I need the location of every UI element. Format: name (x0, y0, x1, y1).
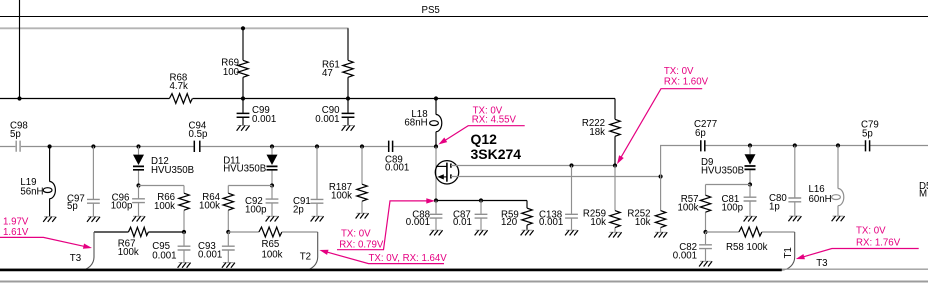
svg-text:3SK274: 3SK274 (471, 146, 522, 162)
ground below C81 (744, 216, 757, 221)
wire R65 to T2 tap (282, 231, 318, 233)
ground below C138 (565, 230, 578, 235)
svg-text:100: 100 (223, 67, 240, 78)
capacitor C88 (435, 201, 437, 230)
capacitor C93 (227, 232, 229, 262)
ground below R252 (654, 232, 667, 237)
capacitor C96 (gray) (138, 186, 140, 217)
svg-text:T3: T3 (816, 258, 827, 269)
capacitor C89 (series) (389, 141, 393, 152)
capacitor C81 (749, 185, 751, 217)
node supply drop / bias wire junction (17, 96, 21, 100)
callout TX: 0V / RX: 1.76V at T1 (795, 225, 919, 261)
svg-text:TX: 0V: TX: 0V (856, 225, 886, 236)
wire gate bias drop (435, 147, 437, 201)
ground below C82 (699, 261, 712, 266)
svg-text:0.001: 0.001 (673, 251, 697, 262)
svg-text:HVU350B: HVU350B (701, 166, 744, 177)
ground below C90 (342, 126, 355, 131)
svg-text:Q12: Q12 (471, 131, 498, 147)
wire RF signal rail (gray) (0, 146, 436, 148)
ground below C88 (430, 230, 443, 235)
wire T3 tap to R67 (94, 231, 128, 233)
svg-text:HVU350B: HVU350B (223, 164, 266, 175)
svg-text:5p: 5p (67, 201, 78, 212)
svg-text:60nH: 60nH (809, 194, 832, 205)
capacitor C97 (gray) (92, 147, 94, 217)
resistor R59 (526, 201, 528, 230)
wire gate bias network (436, 200, 527, 202)
svg-text:0.001: 0.001 (198, 250, 222, 261)
svg-text:10k: 10k (635, 217, 651, 228)
transformer tap T3 (left) (81, 232, 94, 270)
capacitor C87 (480, 201, 482, 230)
wire source node to output coupling (661, 146, 928, 177)
wire bias feed line (0, 98, 615, 100)
ground below C87 (475, 230, 488, 235)
wire supply drop from top edge (19, 0, 21, 99)
node R66 / R67 / C95 (182, 230, 186, 234)
svg-text:100k: 100k (154, 201, 175, 212)
wire R57 to D9 (706, 184, 751, 186)
ground below R59 (521, 230, 534, 235)
svg-text:R65: R65 (262, 239, 280, 250)
node R61 bottom / C90 (346, 96, 350, 100)
svg-text:PS5: PS5 (422, 5, 440, 16)
resistor R58 (739, 227, 762, 237)
ground below C93 (222, 263, 235, 268)
capacitor C79 (series) (866, 140, 870, 151)
wire C82 node to R58 (706, 231, 739, 233)
node D12 cathode junction (136, 183, 140, 187)
capacitor C95 (183, 232, 185, 262)
svg-text:RX: 0.79V: RX: 0.79V (339, 239, 384, 250)
resistor R68 (169, 94, 192, 104)
ground below L19 (43, 217, 56, 222)
transformer tap T1 (782, 232, 795, 270)
node R69 bottom / C99 (241, 96, 245, 100)
svg-text:68nH: 68nH (404, 118, 427, 129)
capacitor C92 (gray) (271, 186, 273, 217)
resistor R65 (259, 227, 282, 237)
capacitor C91 (gray) (316, 147, 318, 217)
svg-text:18k: 18k (589, 127, 605, 138)
node L18 top on bias wire (434, 96, 438, 100)
node C138 on drain lead (569, 163, 573, 167)
node R64 / R65 / C93 (226, 230, 230, 234)
svg-text:T3: T3 (70, 253, 81, 264)
shield ground bar (thick black) (0, 269, 782, 272)
wire R58 to T1 tap (762, 231, 795, 233)
transformer tap T2 (305, 232, 318, 270)
varactor diode D11 (271, 147, 273, 186)
svg-text:120: 120 (501, 217, 518, 228)
node D9 cathode / C81 (748, 182, 752, 186)
svg-text:RX: 1.60V: RX: 1.60V (664, 76, 709, 87)
node C97 tap (91, 144, 95, 148)
svg-text:6p: 6p (695, 128, 706, 139)
node L19 tap (48, 144, 52, 148)
svg-text:0.001: 0.001 (406, 217, 430, 228)
svg-text:56nH: 56nH (20, 187, 43, 198)
callout TX: 0V / RX: 0.79V at gate bias node (337, 198, 435, 250)
callout TX: 0V / RX: 1.60V at drain node (615, 66, 709, 166)
svg-text:100k: 100k (118, 247, 139, 258)
svg-text:T2: T2 (300, 251, 311, 262)
svg-text:0.001: 0.001 (252, 114, 276, 125)
capacitor C82 (705, 232, 707, 261)
svg-text:4.7k: 4.7k (170, 81, 188, 92)
svg-text:1p: 1p (769, 202, 780, 213)
node source / R252 (659, 174, 663, 178)
capacitor C90 (347, 99, 349, 126)
ground below R259 (609, 232, 622, 237)
node C88 (434, 198, 438, 202)
wire R64 to D11 (228, 185, 272, 187)
node C80 tap (793, 143, 797, 147)
capacitor C277 (series) (701, 140, 705, 151)
wire source lead (451, 176, 661, 178)
svg-text:0.5p: 0.5p (189, 129, 208, 140)
svg-text:0.01: 0.01 (453, 217, 472, 228)
node D11 anode on rail (270, 144, 274, 148)
svg-text:HVU350B: HVU350B (151, 165, 194, 176)
transistor Q12 3SK274 (dual-gate MOSFET) (435, 161, 458, 184)
capacitor C94 (series) (194, 141, 200, 152)
node C87 (479, 198, 483, 202)
svg-text:TX: 0V, RX: 1.64V: TX: 0V, RX: 1.64V (369, 253, 448, 264)
svg-text:0.001: 0.001 (539, 217, 563, 228)
node D12 anode on rail (136, 144, 140, 148)
svg-text:100k: 100k (262, 249, 283, 260)
svg-text:TX: 0V: TX: 0V (664, 66, 694, 77)
node D11 cathode junction (270, 183, 274, 187)
resistor R252 (660, 177, 662, 233)
inductor L18 (435, 99, 437, 147)
node R57 / R58 / C82 (703, 230, 707, 234)
capacitor C80 (794, 146, 796, 216)
ground below C80 (788, 216, 801, 221)
svg-text:TX: 0V: TX: 0V (341, 228, 371, 239)
resistor R187 (361, 147, 363, 214)
node R187 tap (360, 144, 364, 148)
resistor R57 (705, 185, 707, 233)
callout TX: 0V, RX: 1.64V at T2 (319, 247, 448, 264)
ground below C91 (311, 216, 324, 221)
inductor L19 (49, 147, 51, 217)
capacitor C98 (series, gray) (16, 141, 20, 152)
svg-text:1.61V: 1.61V (3, 227, 29, 238)
board edge line (gray, full width) (0, 281, 928, 283)
svg-text:100k: 100k (331, 191, 352, 202)
capacitor C138 (571, 166, 573, 230)
svg-text:T1: T1 (783, 247, 794, 258)
wire C93 node to R65 (228, 231, 259, 233)
svg-text:M: M (919, 188, 927, 199)
resistor R67 (128, 227, 148, 236)
svg-text:RX: 1.76V: RX: 1.76V (856, 237, 901, 248)
node L16 tap (836, 143, 840, 147)
resistor R69 (242, 28, 244, 98)
svg-text:R58 100k: R58 100k (726, 242, 768, 253)
svg-text:0.001: 0.001 (152, 250, 176, 261)
svg-text:5p: 5p (862, 128, 873, 139)
capacitor C99 (242, 99, 244, 126)
svg-text:100p: 100p (111, 201, 133, 212)
ground below C96 (132, 216, 145, 221)
svg-text:100p: 100p (245, 205, 267, 216)
svg-text:47: 47 (322, 68, 333, 79)
resistor R61 (347, 28, 349, 98)
ground below C97 (87, 217, 100, 222)
tuning-voltage bus (light gray) (0, 27, 349, 29)
wire D12 to R66 (139, 185, 185, 187)
ground below L16 (832, 216, 845, 221)
ground below R187 (356, 213, 369, 218)
svg-text:0.001: 0.001 (385, 162, 409, 173)
resistor R259 (614, 166, 616, 233)
power rail PS5 (top supply line) (0, 16, 928, 18)
svg-text:RX: 4.55V: RX: 4.55V (472, 114, 517, 125)
svg-text:100p: 100p (722, 203, 744, 214)
resistor R66 (183, 186, 185, 233)
svg-text:2p: 2p (293, 204, 304, 215)
resistor R64 (227, 186, 229, 233)
varactor diode D9 (749, 146, 751, 185)
callout 1.97V / 1.61V at T3 (0, 216, 93, 250)
node C91 tap (315, 144, 319, 148)
ground below C99 (237, 126, 250, 131)
callout TX: 0V / RX: 4.55V at gate node (437, 106, 525, 147)
shield ground line (thin gray, full width) (0, 268, 928, 270)
wire drain lead (451, 165, 615, 167)
node R69 top on tuning bus (241, 26, 245, 30)
resistor R222 (614, 99, 616, 166)
svg-text:0.001: 0.001 (315, 114, 339, 125)
inductor L16 (gray) (837, 146, 839, 216)
svg-text:1.97V: 1.97V (3, 216, 29, 227)
node drain / R222 / R259 (613, 163, 617, 167)
ground below C92 (266, 216, 279, 221)
wire R67 to R66 node (148, 231, 184, 233)
svg-text:10k: 10k (590, 217, 606, 228)
node gate / rail end (434, 144, 438, 148)
varactor diode D12 (138, 147, 140, 186)
ground below C95 (178, 263, 191, 268)
node D9 anode (748, 143, 752, 147)
svg-text:100k: 100k (199, 201, 220, 212)
svg-text:5p: 5p (10, 129, 21, 140)
svg-text:100k: 100k (677, 203, 698, 214)
